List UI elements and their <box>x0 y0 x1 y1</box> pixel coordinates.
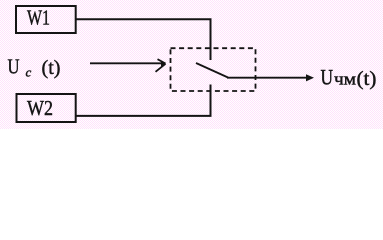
dashed box (switch enclosure) <box>171 48 256 91</box>
svg-text:(t): (t) <box>42 57 61 79</box>
svg-text:W1: W1 <box>27 6 50 30</box>
output wire <box>227 77 308 79</box>
svg-text:U: U <box>321 65 334 90</box>
wire W1 to switch top contact <box>77 19 211 60</box>
control arrow shaft <box>90 62 164 64</box>
svg-text:чм: чм <box>334 70 356 89</box>
svg-text:(t): (t) <box>357 68 377 90</box>
control arrow head <box>158 59 166 63</box>
svg-text:U: U <box>8 55 20 79</box>
output arrowhead <box>306 74 314 81</box>
wire W2 to switch bottom contact <box>77 85 211 116</box>
block W1 <box>16 6 76 33</box>
svg-text:W2: W2 <box>27 96 53 120</box>
svg-text:c: c <box>26 65 32 80</box>
switch lever <box>196 63 228 78</box>
block W2 <box>17 94 76 122</box>
